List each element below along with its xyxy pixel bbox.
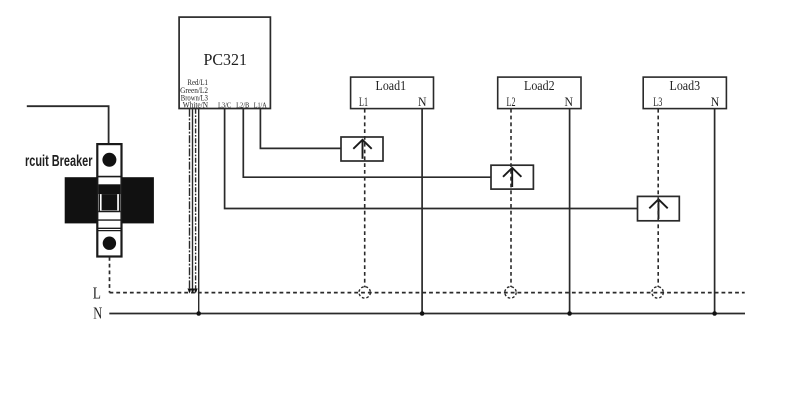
svg-text:L2: L2 (507, 95, 516, 109)
wire: breaker output to L bus (dashed) (109, 257, 111, 293)
node: Load3 N junction (712, 311, 717, 316)
node: L3 lead terminal on L bus (194, 289, 198, 294)
node: L1 lead terminal on L bus (188, 289, 192, 294)
CT sensor CT2 (491, 165, 533, 189)
load box Load1 (351, 77, 434, 109)
svg-text:Load2: Load2 (524, 78, 555, 93)
svg-text:N: N (565, 95, 574, 109)
node: neutral lead junction on N bus (196, 311, 201, 316)
wire: incoming supply line to breaker (27, 106, 109, 144)
svg-text:Load1: Load1 (376, 78, 407, 93)
wire: Load3 L3 drop (dashed) (657, 109, 659, 287)
wire: Load2 L2 drop (dashed) (510, 109, 512, 287)
svg-text:L1: L1 (359, 95, 368, 109)
svg-text:rcuit Breaker: rcuit Breaker (25, 153, 93, 170)
circuit breaker CB1 (65, 144, 154, 256)
CT sensor CT1 (341, 137, 383, 161)
svg-text:L1/A: L1/A (254, 101, 267, 109)
wire: Load1 N drop (421, 109, 423, 314)
svg-text:L2/B: L2/B (236, 101, 250, 109)
CT sensor CT3 (638, 196, 680, 220)
wire: CT terminal L3/C to CT3 (225, 109, 638, 209)
svg-text:L3/C: L3/C (218, 101, 232, 109)
wire: Load2 N drop (569, 109, 571, 314)
svg-text:L: L (93, 283, 101, 302)
svg-text:PC321: PC321 (204, 50, 248, 69)
svg-text:N: N (418, 95, 427, 109)
load box Load2 (498, 77, 581, 109)
svg-text:White/N: White/N (183, 101, 208, 110)
node: L1 tap on L bus (dashed circle) (359, 287, 370, 298)
wire: Brown/L3 voltage lead (dash-dot) (195, 109, 197, 292)
wire: N bus (neutral line) (109, 313, 745, 315)
node: L3 tap on L bus (dashed circle) (652, 287, 663, 298)
node: L2 tap on L bus (dashed circle) (505, 287, 516, 298)
svg-text:N: N (711, 95, 720, 109)
svg-text:L3: L3 (653, 95, 662, 109)
wire: White/N neutral lead (198, 109, 200, 314)
svg-text:N: N (93, 304, 102, 323)
wire: Load1 L1 drop (dashed) (364, 109, 366, 287)
wire: Red/L1 voltage lead (dash-dot) (189, 109, 191, 292)
svg-text:Load3: Load3 (670, 78, 701, 93)
node: Load1 N junction (420, 311, 425, 316)
wire: Green/L2 voltage lead (192, 109, 194, 292)
wire: Load3 N drop (714, 109, 716, 314)
meter U1 PC321 (179, 17, 270, 108)
wire: CT terminal L2/B to CT2 (243, 109, 491, 177)
load box Load3 (643, 77, 726, 109)
wire: CT terminal L1/A to CT1 (260, 109, 341, 149)
wire: L bus (dashed live line) (110, 292, 745, 294)
node: Load2 N junction (567, 311, 572, 316)
node: L2 lead terminal on L bus (191, 289, 195, 294)
